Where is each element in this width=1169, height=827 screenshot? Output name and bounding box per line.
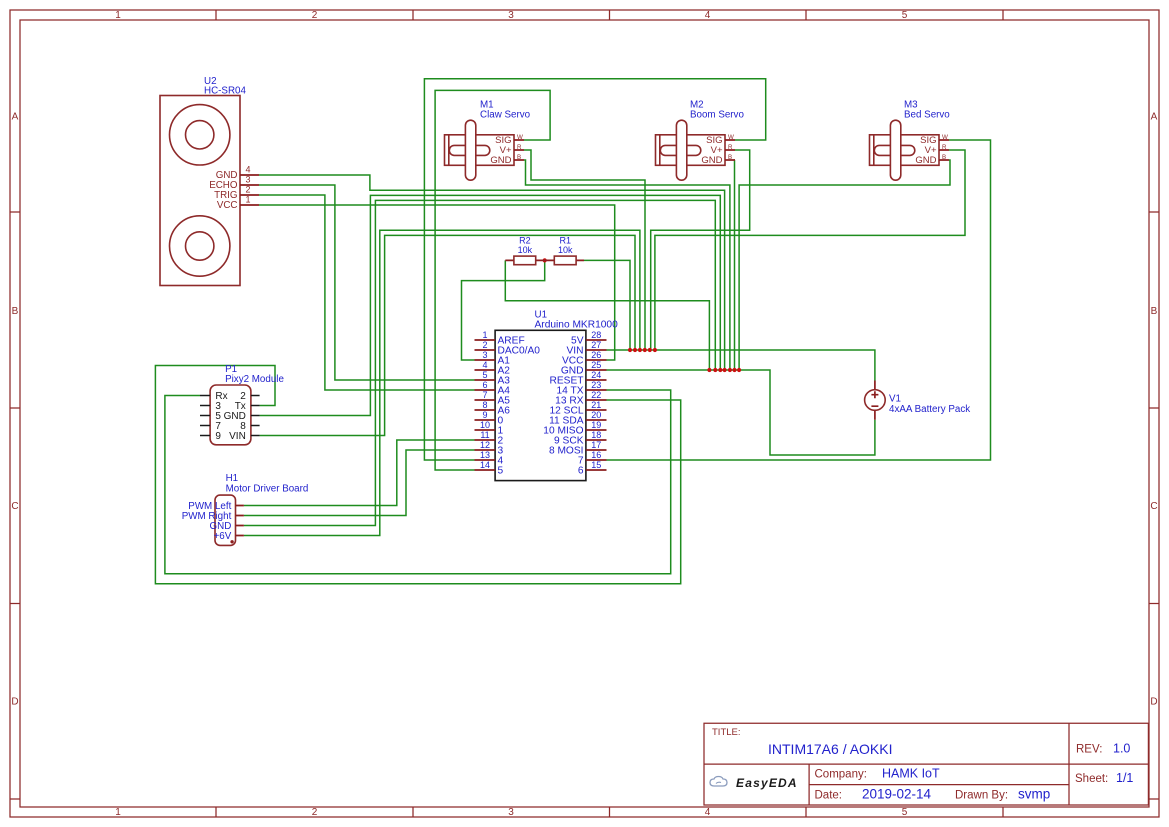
wire R2 left to GND bus — [505, 260, 709, 370]
svg-text:Arduino MKR1000: Arduino MKR1000 — [535, 320, 619, 331]
svg-text:4: 4 — [705, 10, 711, 21]
svg-text:B: B — [12, 306, 19, 317]
svg-text:13: 13 — [480, 450, 490, 460]
svg-text:TITLE:: TITLE: — [712, 727, 741, 738]
svg-text:26: 26 — [591, 350, 601, 360]
wire U2 ECHO to U1 A3 — [259, 185, 475, 380]
svg-text:B: B — [942, 154, 946, 161]
svg-text:25: 25 — [591, 360, 601, 370]
svg-text:11: 11 — [480, 430, 489, 440]
svg-text:GND: GND — [915, 155, 936, 166]
wire P1 Tx to U1 13RX — [155, 366, 680, 584]
wire M1 V+ to VIN bus — [524, 150, 645, 350]
junction GND bus — [713, 368, 717, 372]
wire P1 GND to GND bus — [260, 195, 721, 415]
svg-text:GND: GND — [701, 155, 722, 166]
svg-text:Claw Servo: Claw Servo — [480, 109, 531, 120]
wire M1 SIG to U1 pin14 — [435, 90, 550, 470]
svg-text:A: A — [1151, 112, 1158, 123]
svg-text:8: 8 — [482, 400, 487, 410]
svg-text:W: W — [728, 134, 734, 141]
wire M2 V+ to VIN bus — [651, 150, 750, 350]
junction GND bus — [718, 368, 722, 372]
wire H1 PWM Right to U1 pin12 — [244, 450, 475, 516]
svg-text:HAMK IoT: HAMK IoT — [882, 767, 940, 781]
wire P1 VIN to VIN bus — [260, 235, 635, 435]
svg-text:C: C — [1150, 501, 1157, 512]
svg-text:VIN: VIN — [229, 431, 246, 442]
U1 right pin stubs 28-15 — [586, 340, 607, 470]
wire H1 +6V to VIN bus — [244, 230, 640, 535]
svg-text:27: 27 — [591, 340, 601, 350]
svg-text:R: R — [517, 144, 522, 151]
svg-text:Bed Servo: Bed Servo — [904, 109, 950, 120]
svg-text:10: 10 — [480, 420, 490, 430]
junction VIN bus — [653, 348, 657, 352]
junction GND bus — [737, 368, 741, 372]
svg-text:3: 3 — [482, 350, 487, 360]
junction VIN bus — [638, 348, 642, 352]
junction VIN bus — [628, 348, 632, 352]
svg-text:23: 23 — [591, 380, 601, 390]
junction VIN bus — [633, 348, 637, 352]
svg-text:1/1: 1/1 — [1116, 771, 1133, 785]
wire M3 SIG to U1 pin16 — [607, 140, 991, 460]
wire M1 GND to GND bus — [524, 160, 730, 370]
connector P1 Pixy2 Module — [200, 364, 284, 445]
wire M3 V+ to VIN bus — [655, 150, 965, 350]
svg-text:10k: 10k — [518, 245, 533, 255]
svg-text:B: B — [728, 154, 732, 161]
connector H1 Motor Driver Board — [182, 473, 309, 545]
resistor R2 10k — [505, 236, 544, 265]
wire M2 SIG to U1 pin13 — [424, 79, 765, 460]
svg-text:20: 20 — [591, 410, 601, 420]
svg-text:D: D — [1150, 697, 1157, 708]
svg-text:1.0: 1.0 — [1113, 742, 1130, 756]
svg-text:16: 16 — [591, 450, 601, 460]
junction GND bus — [707, 368, 711, 372]
svg-text:5: 5 — [498, 465, 504, 476]
svg-text:19: 19 — [591, 420, 601, 430]
resistor R1 10k — [545, 236, 584, 265]
svg-text:W: W — [942, 134, 948, 141]
svg-text:17: 17 — [591, 440, 601, 450]
servo motor M1 Claw Servo — [445, 99, 531, 180]
servo motor M3 Bed Servo — [870, 99, 951, 180]
wire U1 GND to V1 minus — [607, 370, 875, 455]
svg-text:B: B — [1151, 306, 1158, 317]
svg-text:R1: R1 — [560, 236, 572, 246]
svg-text:9: 9 — [482, 410, 487, 420]
svg-text:1: 1 — [245, 195, 250, 205]
svg-text:1: 1 — [115, 10, 121, 21]
junction GND bus — [732, 368, 736, 372]
svg-text:EasyEDA: EasyEDA — [736, 776, 798, 790]
svg-text:7: 7 — [482, 390, 487, 400]
svg-text:2: 2 — [312, 10, 318, 21]
junction GND bus — [723, 368, 727, 372]
svg-text:18: 18 — [591, 430, 601, 440]
svg-text:HC-SR04: HC-SR04 — [204, 86, 246, 97]
svg-text:VCC: VCC — [217, 200, 238, 211]
svg-text:9: 9 — [215, 431, 221, 442]
svg-text:15: 15 — [591, 460, 601, 470]
svg-text:4: 4 — [245, 165, 250, 175]
svg-text:4xAA Battery Pack: 4xAA Battery Pack — [889, 404, 970, 415]
svg-text:5: 5 — [482, 370, 487, 380]
svg-text:14: 14 — [480, 460, 490, 470]
svg-text:24: 24 — [591, 370, 601, 380]
wire U2 GND to GND bus — [259, 175, 725, 370]
border column tick marks — [216, 10, 1003, 817]
svg-text:Date:: Date: — [815, 790, 843, 802]
servo motor M2 Boom Servo — [656, 99, 745, 180]
svg-text:+6V: +6V — [214, 531, 232, 542]
battery V1 4xAA Battery Pack — [865, 381, 971, 420]
junction VIN bus — [643, 348, 647, 352]
svg-text:5: 5 — [902, 10, 908, 21]
svg-text:3: 3 — [508, 807, 514, 818]
svg-text:Motor Driver Board: Motor Driver Board — [226, 483, 309, 494]
svg-text:22: 22 — [591, 390, 601, 400]
microcontroller U1 Arduino MKR1000 — [475, 310, 619, 481]
svg-text:2: 2 — [312, 807, 318, 818]
wire U2 TRIG to U1 A4 — [259, 195, 475, 390]
svg-text:4: 4 — [705, 807, 711, 818]
svg-text:W: W — [517, 134, 523, 141]
svg-text:R: R — [728, 144, 733, 151]
junction GND bus — [728, 368, 732, 372]
svg-text:R2: R2 — [519, 236, 531, 246]
ultrasonic sensor U2 HC-SR04 — [160, 76, 259, 286]
wire M2 GND to GND bus — [734, 160, 737, 370]
svg-text:1: 1 — [115, 807, 121, 818]
svg-text:Drawn By:: Drawn By: — [955, 790, 1008, 802]
svg-text:2: 2 — [482, 340, 487, 350]
svg-text:Company:: Company: — [815, 769, 867, 781]
svg-text:B: B — [517, 154, 521, 161]
U1 left pin stubs 1-14 — [475, 340, 496, 470]
svg-text:A: A — [12, 112, 19, 123]
svg-text:3: 3 — [245, 175, 250, 185]
svg-text:V1: V1 — [889, 394, 901, 405]
wire U2 VCC to U1 VCC — [259, 205, 615, 360]
svg-text:6: 6 — [482, 380, 487, 390]
svg-text:REV:: REV: — [1076, 744, 1102, 756]
svg-text:GND: GND — [490, 155, 511, 166]
svg-text:Pixy2 Module: Pixy2 Module — [225, 374, 284, 385]
svg-text:Boom Servo: Boom Servo — [690, 109, 744, 120]
EasyEDA logo — [710, 777, 727, 787]
svg-text:28: 28 — [591, 330, 601, 340]
svg-text:2: 2 — [245, 185, 250, 195]
svg-text:Sheet:: Sheet: — [1075, 773, 1108, 785]
svg-text:21: 21 — [591, 400, 601, 410]
svg-text:R: R — [942, 144, 947, 151]
svg-text:C: C — [11, 501, 18, 512]
wire P1 Rx to U1 14TX — [165, 390, 671, 574]
svg-text:6: 6 — [578, 465, 584, 476]
title block — [704, 723, 1148, 805]
svg-text:INTIM17A6 / AOKKI: INTIM17A6 / AOKKI — [768, 741, 893, 757]
junction VIN bus — [648, 348, 652, 352]
svg-text:5: 5 — [902, 807, 908, 818]
wire H1 PWM Left to U1 pin11 — [244, 440, 475, 506]
wire H1 GND to GND bus — [244, 200, 715, 525]
junction R2/R1 tap — [543, 258, 547, 262]
svg-text:D: D — [11, 697, 18, 708]
svg-text:10k: 10k — [558, 245, 573, 255]
svg-text:12: 12 — [480, 440, 490, 450]
svg-text:3: 3 — [508, 10, 514, 21]
wire U1 VIN to V1 plus — [607, 350, 875, 381]
svg-text:svmp: svmp — [1018, 787, 1050, 802]
svg-text:1: 1 — [482, 330, 487, 340]
wire R1 right to VIN bus — [584, 260, 630, 350]
wire R divider tap to U1 A1 — [462, 260, 545, 360]
svg-text:4: 4 — [482, 360, 487, 370]
wire M3 GND to GND bus — [739, 160, 950, 370]
svg-text:2019-02-14: 2019-02-14 — [862, 787, 932, 802]
border row tick marks — [10, 212, 1159, 799]
